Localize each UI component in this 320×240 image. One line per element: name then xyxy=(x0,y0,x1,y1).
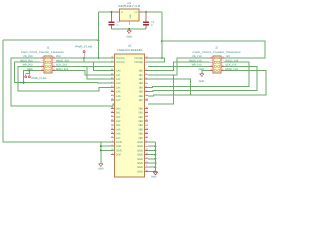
junction right gnd 4 xyxy=(154,158,156,160)
svg-text:GND: GND xyxy=(151,176,157,179)
svg-text:2A0: 2A0 xyxy=(116,107,121,110)
wire VO to 1V8 net xyxy=(143,11,163,13)
svg-text:1OE: 1OE xyxy=(116,145,121,148)
wire U1 GND pin 1 xyxy=(148,141,156,143)
svg-text:2B5: 2B5 xyxy=(138,128,143,131)
J1 pin 3 stub xyxy=(41,65,44,67)
svg-text:GND: GND xyxy=(137,149,143,152)
svg-text:2OE: 2OE xyxy=(116,154,121,157)
ground left of U1 xyxy=(99,164,103,167)
junction C3/VO xyxy=(145,11,147,13)
J2 pin 8 stub xyxy=(221,57,224,59)
wire CE_3V3 loop to 2A1 xyxy=(11,58,114,106)
U1 right pin 2B5 xyxy=(144,128,148,130)
wire GND from J2 pin4 xyxy=(202,71,210,74)
U1 left pin 2A2 xyxy=(111,116,115,118)
wire VCCB pin2 feed xyxy=(148,58,165,62)
J1 pin 1 stub xyxy=(41,57,44,59)
svg-text:1A3: 1A3 xyxy=(116,82,121,85)
wire U1 GND pin 7 xyxy=(148,166,156,168)
U1 left pin 2A5 xyxy=(111,128,115,130)
svg-text:2A7: 2A7 xyxy=(116,137,121,140)
svg-text:GND: GND xyxy=(129,14,132,19)
wire CE_1V8 to 1B2 xyxy=(148,58,210,75)
svg-text:SCK_1V8: SCK_1V8 xyxy=(225,64,237,67)
wire U1 GND pin 5 xyxy=(148,158,156,160)
U1 right pin 2B4 xyxy=(144,124,148,126)
U2 pin VI stub xyxy=(116,11,120,13)
wire stub to GND symbol xyxy=(128,29,130,31)
svg-text:2A2: 2A2 xyxy=(116,116,121,119)
junction right gnd 2 xyxy=(154,149,156,151)
wire 1V8 loop to J2 pin8 xyxy=(162,41,265,58)
wire U1 GND pin 2 xyxy=(148,145,156,147)
U1 left pin 2OE xyxy=(111,154,115,156)
regulator U2 AMS1117-1.8 xyxy=(120,9,140,21)
U1 left pin 1A2 xyxy=(111,78,115,80)
wire SCK_1V8 loop to 1B6 xyxy=(148,66,257,91)
wire 2OE to gnd rail xyxy=(101,149,115,151)
U1 left pin 2A3 xyxy=(111,120,115,122)
svg-text:WP_1V8: WP_1V8 xyxy=(192,64,202,67)
U1 right pin GND xyxy=(144,170,148,172)
U1 left pin 1A7 xyxy=(111,99,115,101)
svg-text:1B6: 1B6 xyxy=(138,95,143,98)
U1 left pin VCC(A) xyxy=(111,57,115,59)
svg-text:Conn_02x04_Counter_Clockwise: Conn_02x04_Counter_Clockwise xyxy=(21,51,65,54)
U1 right pin GND xyxy=(144,149,148,151)
wire GND net under U2 xyxy=(112,28,147,30)
U1 right pin 2B2 xyxy=(144,116,148,118)
svg-text:1B4: 1B4 xyxy=(138,86,143,89)
junction right gnd 5 xyxy=(154,162,156,164)
U1 left pin 2DIR xyxy=(111,149,115,151)
J1 pin 4 stub xyxy=(41,70,44,72)
wire MISO_1V8 to 1B1 xyxy=(148,62,210,70)
wire 3V3 to pin 1OE row xyxy=(3,40,115,142)
svg-text:2A1: 2A1 xyxy=(116,112,121,115)
svg-text:GND: GND xyxy=(20,82,26,85)
junction right gnd 6 xyxy=(154,166,156,168)
connector J1 Conn_02x04_Counter_Clockwise xyxy=(44,56,52,73)
svg-text:1B7: 1B7 xyxy=(138,99,143,102)
svg-text:1A1: 1A1 xyxy=(116,74,121,77)
svg-text:U1: U1 xyxy=(128,43,132,47)
svg-text:2B6: 2B6 xyxy=(138,133,143,136)
svg-text:GND: GND xyxy=(199,80,205,83)
svg-text:2B0: 2B0 xyxy=(138,107,143,110)
svg-text:1A7: 1A7 xyxy=(116,99,121,102)
U1 left pin 1A1 xyxy=(111,74,115,76)
U1 right pin VCC(B) xyxy=(144,61,148,63)
svg-text:VO: VO xyxy=(134,11,137,14)
U1 right pin VCC(B) xyxy=(144,57,148,59)
wire WP_3V3 loop to 1A5 xyxy=(18,66,115,91)
U1 right pin GND xyxy=(144,141,148,143)
wire 1V8 vertical from VO xyxy=(161,12,163,58)
wire VCCA pin2 feed xyxy=(84,58,114,62)
U1 left pin 1DIR xyxy=(111,141,115,143)
J1 pin 6 stub xyxy=(52,65,55,67)
svg-text:MISO_1V8: MISO_1V8 xyxy=(189,59,202,62)
wire right gnd rail xyxy=(154,142,156,172)
junction U2 GND xyxy=(128,28,130,30)
wire U1 GND pin 4 xyxy=(148,154,156,156)
ground below U2 xyxy=(127,31,131,34)
junction C2/VI xyxy=(111,11,113,13)
wire WP_1V8 straight to 1B0 xyxy=(148,65,210,67)
U1 right pin 2B3 xyxy=(144,120,148,122)
wire U1 GND pin 3 xyxy=(148,149,156,151)
svg-text:PWR_FLAG: PWR_FLAG xyxy=(32,77,47,80)
svg-text:1A4: 1A4 xyxy=(116,86,121,89)
junction left gnd 1 xyxy=(100,145,102,147)
wire 1B3 drop to MOSI net xyxy=(148,79,191,95)
svg-text:1A5: 1A5 xyxy=(116,91,121,94)
svg-text:1A0: 1A0 xyxy=(116,70,121,73)
svg-text:VCC(A): VCC(A) xyxy=(116,57,125,60)
U1 right pin 2B0 xyxy=(144,107,148,109)
J1 pin 7 stub xyxy=(52,61,55,63)
svg-text:2B1: 2B1 xyxy=(138,112,143,115)
U1 left pin 1A5 xyxy=(111,91,115,93)
U1 left pin 1OE xyxy=(111,145,115,147)
svg-text:HOLD_1V8: HOLD_1V8 xyxy=(225,59,238,62)
wire HOLD_3V3 from J1 xyxy=(55,61,93,63)
svg-text:AMS1117-1.8: AMS1117-1.8 xyxy=(118,4,140,8)
wire MOSI_1V8 loop to 1B7 xyxy=(148,71,266,96)
J1 pin 2 stub xyxy=(41,61,44,63)
svg-text:1B2: 1B2 xyxy=(138,78,143,81)
svg-text:GND: GND xyxy=(137,154,143,157)
U1 left pin 2A7 xyxy=(111,137,115,139)
U1 right pin 1B4 xyxy=(144,86,148,88)
U1 left pin 1A4 xyxy=(111,86,115,88)
IC U1 74ALVC164245 xyxy=(115,54,145,177)
junction right gnd 3 xyxy=(154,154,156,156)
U1 left pin 1A3 xyxy=(111,82,115,84)
wire 3V3 horizontal xyxy=(3,39,99,41)
U1 left pin 2A6 xyxy=(111,133,115,135)
J2 pin 1 stub xyxy=(210,57,213,59)
svg-text:GND: GND xyxy=(137,170,143,173)
svg-text:2A6: 2A6 xyxy=(116,133,121,136)
svg-text:C: C xyxy=(117,24,119,27)
junction right gnd 7 xyxy=(154,170,156,172)
wire VI to 3V3 net xyxy=(98,11,116,13)
svg-text:1B0: 1B0 xyxy=(138,70,143,73)
wire GND from J1 pin4 xyxy=(23,71,40,84)
U1 right pin 1B2 xyxy=(144,78,148,80)
wire MOSI_3V3 to 1A2 xyxy=(55,71,114,75)
svg-text:2B7: 2B7 xyxy=(138,137,143,140)
U1 right pin GND xyxy=(144,145,148,147)
U1 right pin GND xyxy=(144,154,148,156)
svg-text:2A3: 2A3 xyxy=(116,120,121,123)
U2 pin GND stub xyxy=(128,21,130,25)
svg-text:Conn_02x04_Counter_Clockwise: Conn_02x04_Counter_Clockwise xyxy=(193,51,242,54)
J2 pin 7 stub xyxy=(221,61,224,63)
J2 pin 5 stub xyxy=(221,70,224,72)
U1 right pin 1B1 xyxy=(144,74,148,76)
U1 left pin 1A0 xyxy=(111,70,115,72)
J1 pin 5 stub xyxy=(52,70,55,72)
wire 3V3 row to VCCA xyxy=(55,57,114,59)
svg-text:GND: GND xyxy=(137,158,143,161)
svg-text:GND: GND xyxy=(98,168,104,171)
ground below J2 xyxy=(200,74,204,77)
wire 2B0 riser to 1B2 net xyxy=(148,75,174,104)
junction GND flags xyxy=(28,70,30,72)
U1 right pin 1B7 xyxy=(144,99,148,101)
wire HOLD_1V8 loop to 1B5 xyxy=(148,62,249,87)
svg-text:1A2: 1A2 xyxy=(116,78,121,81)
J2 pin 2 stub xyxy=(210,61,213,63)
wire 3V3 vertical from VI xyxy=(97,12,99,58)
U1 left pin 2A0 xyxy=(111,107,115,109)
J2 pin 4 stub xyxy=(210,70,213,72)
svg-text:C: C xyxy=(151,24,153,27)
svg-text:1B5: 1B5 xyxy=(138,91,143,94)
junction left gnd 2 xyxy=(100,149,102,151)
svg-text:GND: GND xyxy=(137,162,143,165)
svg-text:J1: J1 xyxy=(47,46,50,50)
U1 left pin 2A1 xyxy=(111,112,115,114)
svg-text:VCC(B): VCC(B) xyxy=(134,57,143,60)
U1 right pin 1B6 xyxy=(144,95,148,97)
U1 left pin 1A6 xyxy=(111,95,115,97)
svg-text:2DIR: 2DIR xyxy=(116,149,122,152)
svg-text:1DIR: 1DIR xyxy=(116,141,122,144)
svg-text:1A6: 1A6 xyxy=(116,95,121,98)
svg-text:74ALVC164245: 74ALVC164245 xyxy=(117,48,144,52)
junction right gnd 1 xyxy=(154,145,156,147)
wire U1 GND pin 8 xyxy=(148,170,156,172)
junction 1V8 line xyxy=(161,40,163,42)
power flag PWR_FLAG on 3V3 xyxy=(83,53,85,58)
svg-text:1V8: 1V8 xyxy=(225,55,230,58)
junction 3V3 at VCCA row xyxy=(97,57,99,59)
svg-text:GND: GND xyxy=(137,141,143,144)
J2 pin 3 stub xyxy=(210,65,213,67)
U1 left pin VCC(A) xyxy=(111,61,115,63)
wire to flags xyxy=(26,71,30,74)
svg-text:2A5: 2A5 xyxy=(116,128,121,131)
J1 pin 8 stub xyxy=(52,57,55,59)
U1 right pin 2B1 xyxy=(144,112,148,114)
wire 1OE to gnd rail xyxy=(101,145,115,147)
wire SCK_3V3 to 1A3 xyxy=(55,66,114,79)
U1 right pin 2B6 xyxy=(144,133,148,135)
ground right of U1 xyxy=(153,172,157,175)
J2 pin 6 stub xyxy=(221,65,224,67)
U2 pin VO stub xyxy=(139,11,143,13)
wire U1 GND pin 6 xyxy=(148,162,156,164)
connector J2 Conn_02x04_Counter_Clockwise xyxy=(213,56,221,73)
svg-text:J2: J2 xyxy=(215,46,218,50)
wire SCK_3V3 straight to 1A0 xyxy=(55,65,114,67)
U1 right pin 1B0 xyxy=(144,70,148,72)
svg-text:PWR_FLAG: PWR_FLAG xyxy=(75,45,92,48)
U1 right pin GND xyxy=(144,162,148,164)
svg-text:2A4: 2A4 xyxy=(116,124,121,127)
svg-text:VCC(A): VCC(A) xyxy=(116,61,125,64)
U1 left pin 2A4 xyxy=(111,124,115,126)
U1 right pin GND xyxy=(144,166,148,168)
wire VCCB row xyxy=(148,57,165,59)
capacitor C2 xyxy=(111,13,113,22)
svg-text:GND: GND xyxy=(127,36,133,39)
svg-text:VCC(B): VCC(B) xyxy=(134,61,143,64)
svg-text:1B3: 1B3 xyxy=(138,82,143,85)
junction 1V8 at VCCB row xyxy=(161,57,163,59)
svg-text:GND: GND xyxy=(137,145,143,148)
U1 right pin 1B3 xyxy=(144,82,148,84)
svg-text:CE_1V8: CE_1V8 xyxy=(192,55,202,58)
wire MISO_3V3 loop to 1A4 xyxy=(15,62,115,83)
wire left gnd rail xyxy=(100,142,102,163)
svg-text:1B1: 1B1 xyxy=(138,74,143,77)
U1 right pin 1B5 xyxy=(144,91,148,93)
svg-text:MOSI_1V8: MOSI_1V8 xyxy=(225,68,238,71)
svg-text:2B3: 2B3 xyxy=(138,120,143,123)
svg-text:GND: GND xyxy=(137,166,143,169)
svg-text:2B2: 2B2 xyxy=(138,116,143,119)
capacitor C3 xyxy=(145,13,147,22)
wire HOLD to 1A1 xyxy=(94,62,115,70)
U1 right pin GND xyxy=(144,158,148,160)
junction PWR_FLAG/VCCA2 tap xyxy=(83,57,85,59)
junction 3V3 vertical xyxy=(97,39,99,41)
svg-text:2B4: 2B4 xyxy=(138,124,143,127)
U1 right pin 2B7 xyxy=(144,137,148,139)
